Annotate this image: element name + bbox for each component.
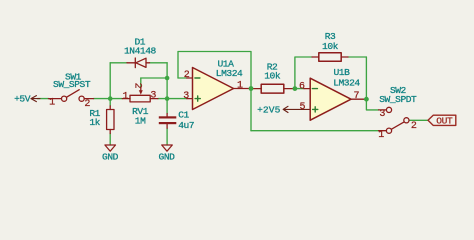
svg-text:3: 3 [379, 109, 385, 120]
U1A pin1 output stub [234, 88, 249, 90]
svg-text:6: 6 [299, 81, 305, 92]
SW2 pin1 stub [379, 130, 387, 132]
R3 pin stubs [312, 56, 348, 58]
svg-text:SW_SPDT: SW_SPDT [379, 94, 417, 105]
svg-text:GND: GND [159, 151, 176, 162]
wire main row +5V to SW1 [38, 98, 49, 100]
wire C1 top [166, 99, 168, 114]
global label +2V5 arrow and U1B pin5 stub [283, 106, 310, 112]
wire bottom row to SW2 pin1 [251, 130, 379, 132]
ground symbol below R1 [105, 145, 116, 151]
wire R3 right to vertical [348, 56, 366, 58]
switch SW1 lever [67, 90, 80, 98]
wire U1A pin2 [178, 77, 187, 79]
svg-text:7: 7 [353, 91, 359, 102]
capacitor C1 top plate [159, 116, 177, 118]
svg-text:1: 1 [122, 92, 128, 103]
svg-text:2: 2 [84, 99, 90, 110]
svg-text:U1B: U1B [334, 67, 351, 78]
resistor R2 body [261, 84, 284, 93]
potentiometer RV1 body [130, 95, 150, 102]
svg-text:LM324: LM324 [216, 68, 243, 79]
svg-text:2: 2 [411, 121, 417, 132]
junction node at SW1/R1/D1 [108, 96, 113, 101]
junction node at U1B output [364, 97, 369, 102]
svg-text:+2V5: +2V5 [257, 105, 281, 116]
capacitor C1 bottom plate [159, 122, 177, 124]
switch SW1 pole circle [62, 96, 67, 101]
svg-text:LM324: LM324 [333, 78, 360, 89]
junction node at R2/R3/pin6 [293, 86, 298, 91]
wire diode row right [150, 62, 168, 64]
wire wiper row [141, 77, 167, 79]
U1A pin3 stub [187, 98, 193, 100]
SW2 pin3 stub [379, 109, 387, 111]
SW1 pin1 stub [49, 98, 62, 100]
potentiometer RV1 wiper arrow [140, 87, 142, 91]
op-amp U1A plus mark [195, 96, 200, 101]
svg-text:1k: 1k [89, 117, 100, 128]
svg-text:3: 3 [150, 90, 156, 101]
svg-text:4u7: 4u7 [178, 120, 194, 131]
svg-text:10k: 10k [322, 41, 339, 52]
D1 cathode stub [146, 62, 150, 64]
svg-text:5: 5 [299, 102, 305, 113]
op-amp U1B minus mark [312, 88, 317, 90]
global label +5V arrow [31, 96, 40, 102]
wire R2 to U1B pin6 [297, 88, 304, 90]
svg-text:10k: 10k [264, 71, 281, 82]
switch SW2 throw 1 circle [386, 128, 391, 133]
op-amp U1A body [193, 68, 234, 110]
op-amp U1B plus mark [313, 107, 318, 112]
wire diode loop right vertical [166, 63, 168, 99]
C1 pin stubs [166, 114, 168, 129]
switch SW2 throw 3 circle [386, 107, 391, 112]
R2 pin stubs [251, 88, 293, 90]
svg-text:2: 2 [131, 83, 142, 89]
resistor R1 body [107, 110, 114, 130]
svg-text:+5V: +5V [14, 94, 31, 105]
U1B pin6 stub [304, 88, 310, 90]
wire R3 right vertical down to SW2 pin3 [366, 57, 378, 110]
ground symbol below C1 [162, 145, 173, 151]
svg-text:1M: 1M [135, 116, 146, 127]
wire R3 loop left vertical [295, 57, 312, 89]
svg-text:GND: GND [102, 151, 119, 162]
junction node at wiper row [165, 76, 170, 81]
SW1 pin2 stub [84, 98, 93, 100]
U1A pin2 stub [187, 77, 193, 79]
diode D1 body [135, 58, 146, 68]
switch SW2 lever [391, 122, 404, 129]
wire SW2 common to OUT [409, 119, 428, 121]
wire RV1 pin3 to U1A pin3 [158, 98, 187, 100]
RV1 pin1 stub [122, 98, 130, 100]
svg-text:1: 1 [49, 97, 55, 108]
RV1 pin3 stub [150, 98, 158, 100]
svg-text:OUT: OUT [436, 116, 453, 127]
wire R1 top [109, 99, 111, 106]
junction node at C1/main row [165, 96, 170, 101]
junction node at U1A output [249, 86, 254, 91]
svg-text:1N4148: 1N4148 [124, 45, 157, 56]
R1 pin stubs [109, 106, 111, 134]
wire U1A output node down [250, 89, 252, 131]
resistor R3 body [319, 53, 341, 62]
switch SW1 throw circle [79, 96, 84, 101]
wire R1 bottom to GND [109, 134, 111, 146]
switch SW2 common circle [404, 118, 409, 123]
wire U1A feedback loop [178, 52, 251, 89]
U1B pin7 output stub [351, 98, 364, 100]
op-amp U1B body [310, 78, 351, 120]
D1 anode stub [127, 62, 135, 64]
wire RV1 wiper vertical [140, 78, 142, 87]
wire C1 bottom to GND [166, 128, 168, 145]
wire diode loop left vertical [109, 63, 111, 99]
wire diode row left [110, 62, 127, 64]
svg-text:2: 2 [184, 70, 190, 81]
svg-text:3: 3 [183, 91, 189, 102]
op-amp U1A minus mark [195, 77, 200, 79]
wire SW1 to RV1 pin1 [94, 98, 123, 100]
svg-text:1: 1 [378, 130, 384, 141]
svg-text:SW_SPST: SW_SPST [53, 79, 91, 90]
svg-text:1: 1 [237, 80, 243, 91]
global label OUT tag [428, 115, 456, 125]
